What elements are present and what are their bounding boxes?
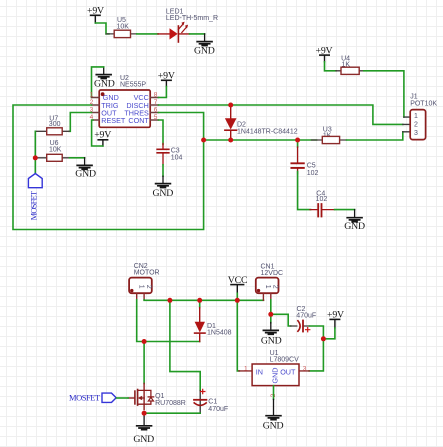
diode D2 1N4148TR-C84412 [225,105,298,140]
svg-text:1: 1 [90,91,94,98]
wire C4 to GND [335,209,355,211]
svg-text:3: 3 [414,130,418,137]
svg-text:D2: D2 [237,121,246,128]
node junction VCC [235,298,240,303]
transistor Q1 RU7088R [128,383,186,409]
wire C1 branch [170,300,200,390]
svg-text:OUT: OUT [280,367,296,376]
power VCC supply [228,275,248,294]
svg-text:RU7088R: RU7088R [155,400,186,407]
node junction C1 branch [167,298,172,303]
svg-text:+9V: +9V [94,129,111,140]
resistor U7 300 [35,116,69,135]
wire U7 to U6 junction and port [34,131,36,174]
wire Q1 source row to C1 [144,412,200,414]
svg-text:104: 104 [171,154,183,161]
node junction Q1 drain branch [142,339,147,344]
wire CN2 pin1 down to motor- row [137,300,200,342]
svg-text:470uF: 470uF [208,406,228,413]
svg-text:GND: GND [75,168,96,179]
power +9V supply P4 (U4) [316,45,333,61]
port MOSFET (upper) [28,174,42,221]
svg-text:1: 1 [414,113,418,120]
node junction Q1 source/GND [142,411,147,416]
svg-text:Q1: Q1 [155,393,164,400]
wire VCC to row and U1 IN [237,293,239,371]
svg-text:300: 300 [49,121,61,128]
svg-text:GND: GND [94,78,115,89]
svg-text:3: 3 [303,365,307,372]
wire GND to 555 pin 1 [92,67,104,98]
resistor U3 1K [312,127,347,144]
svg-text:6: 6 [154,106,158,113]
connector CN2 MOTOR [129,263,160,300]
ground GND (LED) [194,34,215,56]
ground GND (Q1) [133,413,154,445]
wire U4 to J1 pin 1 [364,71,404,117]
svg-text:POT10K: POT10K [410,100,437,107]
ground GND (555 pin1) [94,67,115,89]
svg-text:RESET: RESET [101,116,126,125]
svg-text:1N5408: 1N5408 [207,329,232,336]
wire C2 to +9V junction [310,326,324,339]
ground GND (CN1) [261,314,282,346]
svg-text:1: 1 [244,365,248,372]
svg-text:12VDC: 12VDC [261,270,284,277]
node junction U6/U7/port [33,155,38,160]
svg-text:MOSFET: MOSFET [69,392,101,402]
svg-text:102: 102 [316,196,328,203]
resistor U6 10K [35,140,69,161]
wire CN1 junction to C2 [271,314,291,326]
wire CN2 pin2 VCC row [144,299,263,302]
wire DISCH to J1 pin 2 [159,105,403,124]
node junction D2 anode [228,103,233,108]
svg-text:GND: GND [261,336,282,347]
svg-text:NE555P: NE555P [120,82,146,89]
svg-text:C5: C5 [307,163,316,170]
capacitor C5 102 [291,140,318,177]
wire U3 to J1 pin 3 [347,132,403,140]
node junction +9V/OUT [321,336,326,341]
wire U6 to GND [70,157,85,159]
connector CN1 12VDC [256,264,283,301]
svg-text:GND: GND [194,45,215,56]
wire +9V to 555 pin 8 [159,87,167,98]
wire LED1 to GND [190,33,205,35]
svg-text:8: 8 [154,91,158,98]
capacitor C3 104 [157,144,182,165]
ground GND (C3) [153,176,174,199]
node junction THRES row left [201,138,206,143]
svg-text:GND: GND [263,421,284,432]
svg-text:MOTOR: MOTOR [134,269,160,276]
resistor U5 10K [106,17,137,38]
capacitor C1 470uF [194,389,228,413]
svg-text:GND: GND [153,188,174,199]
svg-text:GND: GND [133,434,154,445]
wire +9V to U4 [325,62,337,71]
wire junction to Q1 drain [143,342,145,384]
node junction D2 cathode [228,138,233,143]
wire C3 to GND [162,165,164,176]
wire U5 to LED1 [137,33,158,35]
svg-text:2: 2 [145,285,152,289]
op-amp / timer IC U2 NE555P [90,75,159,127]
svg-text:2: 2 [272,285,279,289]
capacitor C4 102 [310,190,335,216]
svg-text:C1: C1 [208,399,217,406]
svg-text:7: 7 [154,99,158,106]
wire junction to U1 OUT [309,339,323,371]
connector J1 POT10K [403,93,438,139]
wire +9V to U5 [95,23,109,34]
svg-text:L7809CV: L7809CV [270,356,300,363]
LED LED1 [158,9,218,42]
svg-text:470uF: 470uF [296,312,316,319]
svg-text:5: 5 [154,114,158,121]
svg-text:2: 2 [414,122,418,129]
wire RESET to +9V [92,120,103,146]
pin stubs U2 [92,98,159,121]
wire CN1 pin2 to GND/C2 junction [270,300,272,315]
diode D1 1N5408 [195,300,232,341]
wire THRES row to U3 [204,139,317,141]
power +9V supply P1 [87,6,104,23]
ground GND (U6) [75,158,96,180]
node junction C5 top [295,138,300,143]
svg-text:CONT: CONT [128,116,149,125]
svg-text:GND: GND [271,368,280,384]
power +9V supply P3 (555 RESET) [94,129,111,146]
svg-text:10K: 10K [49,147,62,154]
power +9V supply P2 (555 VCC) [158,71,175,87]
node junction CN1 ground [268,312,273,317]
svg-text:MOSFET: MOSFET [28,190,38,220]
node junction D1 branch [197,298,202,303]
svg-text:IN: IN [256,367,263,376]
pin-1 marker dot U2 [101,92,105,96]
regulator U1 L7809CV [239,350,309,399]
wire OUT to U7 [69,113,91,132]
wire TRIG loop to THRES node [13,105,204,230]
power +9V supply P5 [327,309,344,328]
wire CONT to C3 [159,120,164,145]
svg-text:1: 1 [138,285,145,289]
wire C5 to C4 [298,172,311,210]
capacitor C2 470uF [291,306,317,332]
svg-text:LED-TH-5mm_R: LED-TH-5mm_R [166,15,218,22]
resistor U4 1K [336,55,364,74]
wire +9V to junction [323,328,335,339]
wire THRES down leg [159,113,204,141]
ground GND (U1) [263,399,284,431]
svg-text:102: 102 [307,170,319,177]
ground GND (C4) [344,210,365,232]
svg-text:GND: GND [344,221,365,232]
svg-text:1: 1 [264,285,271,289]
svg-text:1N4148TR-C84412: 1N4148TR-C84412 [237,128,298,135]
port MOSFET (gate) [69,392,128,402]
